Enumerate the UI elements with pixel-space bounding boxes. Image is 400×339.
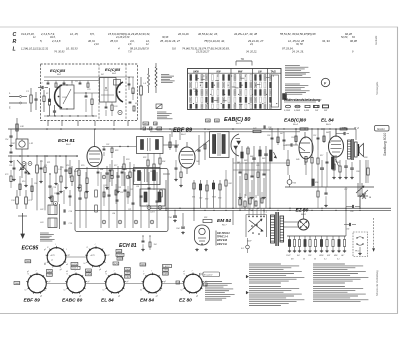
wire CM to bus [21, 149, 23, 156]
svg-text:ECC85: ECC85 [22, 246, 39, 252]
long vertical wires lower [165, 180, 167, 210]
svg-text:L24: L24 [112, 212, 115, 215]
svg-text:Ersatzteil: Ersatzteil [204, 273, 213, 276]
secondary bus wire [150, 131, 300, 133]
antenna trimmer C95 [22, 162, 26, 166]
svg-text:R14: R14 [74, 170, 77, 173]
car antenna lead [22, 213, 24, 234]
FM trimmer C20 [118, 110, 122, 114]
screen capacitor C27 [105, 172, 108, 174]
pickup TA jack [358, 195, 368, 197]
svg-text:M: M [144, 128, 146, 130]
svg-text:21,28,23,30: 21,28,23,30 [115, 36, 130, 39]
svg-text:Si 1: Si 1 [241, 248, 244, 250]
svg-text:R11: R11 [47, 162, 50, 164]
svg-text:R23: R23 [143, 157, 146, 159]
wire ECH81 plate to Fi1 [94, 129, 96, 142]
capacitor C14 [9, 135, 12, 137]
svg-text:g1: g1 [44, 249, 46, 251]
cathode resistor R16 [86, 178, 88, 184]
svg-text:L11: L11 [40, 161, 43, 163]
thermistor R50 [287, 180, 292, 185]
value boxes above EAB(C)80 [206, 119, 211, 122]
voltage box 240V [25, 260, 31, 263]
band switch table frame [188, 69, 282, 110]
tube EBF89 [179, 147, 195, 168]
resistor R19 [129, 172, 131, 178]
tube EM84 [195, 225, 210, 245]
svg-text:g3: g3 [156, 295, 158, 297]
speaker wires [357, 144, 358, 146]
wire to EM84 [193, 208, 195, 221]
left vertical wires to lower bus [36, 180, 38, 210]
bottom left note text [205, 281, 222, 283]
audio triode EABC80 [299, 137, 313, 159]
svg-text:Rö 2: Rö 2 [66, 144, 71, 146]
svg-text:3W: 3W [154, 123, 157, 125]
svg-text:EL 84: EL 84 [101, 298, 114, 304]
svg-text:k1: k1 [25, 290, 27, 292]
left zone verticals [13, 160, 15, 178]
svg-text:26,31,26: 26,31,26 [177, 32, 189, 36]
detector area grounds [239, 196, 241, 197]
FM tuner shield box [41, 64, 138, 121]
left area grounds [49, 196, 51, 197]
oscillator padder caps [108, 194, 111, 196]
svg-text:7,8: 7,8 [128, 50, 132, 53]
svg-text:W19: W19 [212, 197, 216, 199]
heater choke resistor [155, 67, 157, 87]
resistor W150 [312, 179, 314, 186]
spare part callout box [203, 272, 220, 277]
svg-text:96,98: 96,98 [350, 39, 357, 43]
IF trimmers [147, 206, 151, 210]
wire EBF89 plate [169, 134, 171, 150]
svg-text:245V: 245V [47, 275, 52, 277]
svg-text:a1: a1 [183, 271, 185, 273]
speaker field coil [367, 168, 369, 175]
grid capacitor C48 [290, 143, 292, 146]
heater wires [284, 221, 299, 223]
svg-text:74, 30,93: 74, 30,93 [54, 50, 65, 53]
svg-text:g1: g1 [27, 271, 29, 273]
AM tuning gang arrow [17, 160, 30, 174]
antenna coil L1 [30, 95, 32, 103]
svg-text:C40: C40 [196, 160, 199, 163]
svg-text:k1: k1 [103, 290, 105, 292]
svg-text:C22: C22 [146, 205, 149, 207]
svg-text:EM 84: EM 84 [140, 298, 154, 304]
svg-text:8,5,: 8,5, [90, 32, 95, 36]
svg-text:12, 25,: 12, 25, [70, 32, 79, 36]
svg-text:KW: KW [327, 255, 330, 257]
svg-text:100V: 100V [15, 283, 20, 285]
resistor R71 [25, 197, 28, 204]
note paragraph 2 [285, 83, 300, 85]
AVC line parts [232, 158, 234, 208]
resistor R43 [241, 152, 243, 158]
decoupling cap C94 [173, 215, 177, 217]
resistor R14 [71, 176, 73, 182]
capacitor C84 [181, 226, 185, 228]
svg-text:MW: MW [238, 70, 243, 73]
svg-text:52,80,: 52,80, [341, 36, 348, 39]
resistor R2 [48, 99, 50, 105]
svg-text:EAB(C)80: EAB(C)80 [284, 118, 306, 124]
legend resistor 0.12W [285, 105, 290, 108]
svg-text:k2: k2 [66, 271, 68, 273]
svg-text:C91: C91 [11, 200, 15, 202]
svg-text:k2: k2 [44, 264, 46, 266]
svg-text:240V: 240V [26, 261, 31, 263]
coupling capacitor C56 [343, 132, 345, 135]
capacitor C80 [352, 205, 354, 208]
screen resistors row [193, 180, 195, 208]
svg-text:50: 50 [303, 259, 305, 261]
svg-text:C52: C52 [313, 135, 316, 137]
capacitor C91 [16, 197, 19, 204]
tone pot [332, 157, 335, 169]
FM compartment divider 2 [125, 64, 127, 121]
mid zone verticals [97, 166, 99, 186]
svg-text:Schema der Verdrahtung: Schema der Verdrahtung [376, 270, 379, 296]
svg-text:g1: g1 [49, 281, 51, 283]
tube EL84 [329, 136, 344, 157]
socket row link wires [46, 283, 66, 285]
svg-text:C29: C29 [100, 169, 103, 171]
svg-text:250V: 250V [125, 269, 130, 271]
svg-text:Rö 3: Rö 3 [236, 123, 241, 125]
band switch contact stripes [190, 75, 192, 81]
svg-text:(210V): (210V) [117, 255, 124, 257]
capacitor C18 [63, 209, 65, 212]
triode V1a [55, 85, 62, 108]
dashed link arrow [373, 218, 375, 251]
legend resistor 0.5W [305, 105, 310, 107]
socket link wires [66, 256, 86, 258]
ECH81 plate coupling parts [103, 148, 106, 150]
oscillator coil pack box [75, 169, 168, 232]
ratio detector wires [204, 132, 206, 161]
svg-text:C229: C229 [103, 185, 107, 187]
page right edge [397, 27, 399, 314]
svg-text:R60: R60 [229, 183, 232, 185]
antenna coil L32 [48, 205, 57, 215]
svg-text:55,51,52, 80,62,56,97(95),98: 55,51,52, 80,62,56,97(95),98 [280, 32, 316, 36]
svg-text:k1: k1 [140, 290, 142, 292]
svg-text:g3: g3 [99, 269, 101, 271]
voltage selector plate [245, 215, 247, 238]
svg-text:g1: g1 [88, 281, 90, 283]
table right contact block [283, 94, 287, 100]
wire down right [345, 187, 347, 236]
ECH81 pentode-heptode tube [87, 147, 102, 167]
svg-text:100V: 100V [163, 273, 168, 275]
svg-text:f1: f1 [106, 273, 107, 275]
legend resistor 1W [314, 105, 320, 107]
electrolytic capacitor bank [287, 235, 346, 237]
svg-text:190-7/8 E14: 190-7/8 E14 [217, 232, 230, 235]
svg-text:g3: g3 [118, 295, 120, 297]
svg-text:EZ 80: EZ 80 [179, 298, 192, 304]
volume potentiometer [270, 150, 273, 161]
EM84 grounds [196, 248, 198, 249]
svg-text:24, 24, 26,: 24, 24, 26, [291, 50, 304, 53]
svg-text:R40: R40 [207, 128, 210, 131]
IF transformer Fi3 [140, 189, 165, 206]
svg-text:R61: R61 [204, 217, 207, 219]
power transformer Tr1 [271, 215, 275, 243]
anode resistor R55 [305, 157, 307, 163]
svg-text:Tr 2: Tr 2 [354, 126, 359, 130]
selector feed resistors [239, 199, 241, 205]
L6 L7 junction labels [143, 122, 149, 125]
svg-text:R43: R43 [244, 159, 247, 162]
svg-text:Teil-Ausgabe: Teil-Ausgabe [376, 81, 379, 95]
svg-text:C23: C23 [120, 192, 123, 194]
svg-text:f1: f1 [143, 273, 144, 275]
svg-text:g2: g2 [105, 271, 107, 273]
EM84 drive resistor [225, 180, 227, 186]
svg-text:CM: CM [11, 143, 15, 145]
interstage cap C17 [85, 95, 88, 97]
svg-text:45, 29,41 26, 27: 45, 29,41 26, 27 [160, 39, 180, 43]
svg-text:250V: 250V [86, 270, 91, 272]
resistor R45 [259, 150, 261, 156]
wave trap L10 [55, 166, 57, 173]
ferrite antenna coupler CM [16, 139, 28, 149]
svg-text:f1: f1 [28, 273, 29, 275]
wire Fi1 to EBF89 [163, 144, 179, 146]
FM top rails [44, 76, 134, 78]
svg-text:a2: a2 [66, 264, 68, 266]
svg-text:k1: k1 [84, 263, 86, 265]
capacitor C45 [252, 157, 256, 159]
svg-text:C95: C95 [9, 165, 12, 167]
svg-text:24,: 24, [249, 43, 254, 46]
bus junction dots [16, 128, 18, 130]
svg-text:75(?)1,16,20, 42,: 75(?)1,16,20, 42, [204, 39, 225, 43]
svg-text:C81: C81 [346, 229, 349, 231]
padder C16 [48, 185, 51, 187]
svg-text:ECH 81: ECH 81 [119, 243, 137, 249]
wire to output [359, 160, 361, 208]
capacitor C90 [263, 125, 265, 128]
misc junction dots lower bus [165, 210, 166, 211]
socket diagram ECC85 [47, 248, 66, 267]
svg-text:2,16: 2,16 [93, 43, 99, 46]
note arrows [246, 275, 248, 278]
svg-text:EBF 89: EBF 89 [24, 298, 41, 304]
interstage wire [74, 92, 100, 94]
ECH81 area ground symbols [65, 186, 67, 187]
oscillator trimmers [102, 175, 106, 179]
coupling symbol [156, 104, 162, 109]
svg-text:a1: a1 [44, 290, 46, 292]
capacitor C4 [53, 110, 56, 112]
tone switch contacts [357, 183, 359, 197]
rectifier tube EZ80 [298, 219, 309, 230]
svg-text:Rö 7: Rö 7 [222, 224, 227, 226]
svg-text:R45: R45 [262, 157, 265, 160]
svg-text:f1: f1 [47, 247, 48, 249]
svg-text:44,45+1,47, 49, 48: 44,45+1,47, 49, 48 [234, 32, 257, 36]
svg-text:R26: R26 [124, 169, 127, 171]
resistor R18 [123, 164, 125, 170]
svg-text:2,2V: 2,2V [114, 263, 119, 265]
svg-text:Rö 2: Rö 2 [181, 134, 186, 136]
detector network verticals [235, 146, 237, 208]
IF transformer Fi2 [134, 168, 161, 185]
AVC bus wire [285, 186, 374, 188]
caps near oscillator box bottom [142, 240, 145, 242]
svg-text:C42: C42 [199, 197, 202, 200]
band switch column dividers [208, 69, 210, 110]
cathode network EL84 [333, 164, 335, 170]
svg-text:ECH 81: ECH 81 [58, 138, 75, 144]
svg-text:g3: g3 [196, 295, 198, 297]
mid zone components [97, 171, 100, 173]
svg-text:245V: 245V [141, 264, 146, 266]
detector load R42 [253, 130, 261, 132]
svg-text:Ph 1: Ph 1 [355, 251, 360, 253]
B+ feed resistors [300, 128, 308, 130]
svg-text:C14: C14 [5, 138, 8, 141]
interstage res R5 [91, 99, 93, 105]
svg-text:g3: g3 [40, 295, 42, 297]
V2 cathode stack [111, 105, 113, 111]
svg-text:UKW: UKW [319, 255, 324, 257]
svg-text:R25: R25 [106, 189, 109, 191]
svg-text:R16: R16 [66, 165, 69, 167]
svg-text:C32: C32 [106, 144, 109, 146]
capacitor C28 [116, 175, 119, 177]
svg-text:36,98: 36,98 [162, 36, 169, 39]
svg-text:7,3V: 7,3V [125, 276, 130, 278]
oscillator box verticals [100, 172, 102, 228]
output transformer Tr2 [348, 140, 351, 159]
svg-text:150V: 150V [118, 258, 123, 260]
junction dots left area [36, 155, 37, 156]
capacitor C46 [264, 153, 268, 155]
svg-text:f1: f1 [184, 273, 185, 275]
socket row voltage boxes [14, 282, 20, 285]
ratio coil L7 [148, 74, 150, 86]
svg-text:L12: L12 [44, 165, 47, 167]
svg-text:R13: R13 [22, 181, 25, 183]
svg-text:C25: C25 [54, 193, 57, 195]
svg-text:Rö 4: Rö 4 [293, 123, 298, 126]
svg-text:+67V: +67V [50, 255, 55, 257]
loudspeaker [358, 144, 360, 156]
svg-text:R53: R53 [218, 198, 221, 200]
choke L30 [16, 124, 18, 131]
EBF89 cathode parts [175, 167, 178, 169]
svg-text:Widerstandsbelastung:: Widerstandsbelastung: [284, 98, 321, 102]
core line [59, 204, 61, 229]
resistor R12 [60, 176, 62, 182]
svg-text:250V: 250V [47, 271, 52, 273]
svg-text:MW: MW [334, 255, 338, 257]
TA S column box [272, 75, 279, 107]
note text block top [161, 74, 169, 76]
svg-text:34V: 34V [206, 120, 210, 122]
svg-text:C30: C30 [118, 187, 121, 189]
svg-text:TA/S: TA/S [271, 70, 277, 73]
FM rail components [47, 81, 49, 84]
antenna coupling trimmer [54, 202, 58, 206]
capacitor C33 [174, 145, 177, 147]
svg-text:R1: R1 [46, 93, 48, 95]
wire from CM down [16, 122, 18, 139]
svg-text:g3: g3 [60, 269, 62, 271]
bottom right note text [313, 263, 345, 265]
svg-text:5,6: 5,6 [172, 46, 176, 50]
svg-text:EM 84: EM 84 [217, 218, 231, 224]
svg-text:9/13,: 9/13, [50, 36, 56, 39]
svg-text:5,: 5, [40, 39, 43, 43]
voltage boxes right of ECH81 [116, 250, 122, 253]
note text block middle [157, 111, 166, 113]
audio area verticals [271, 129, 273, 150]
svg-text:200V: 200V [117, 251, 122, 253]
FM box bottom contact dots [47, 115, 48, 116]
resistor R15 [78, 170, 80, 176]
antenna note text [40, 232, 49, 234]
svg-text:R51: R51 [192, 197, 195, 199]
socket diagram ECH81 [87, 248, 106, 267]
AM input bus wire [8, 155, 78, 157]
FM input dipole [9, 96, 19, 98]
svg-text:0,65V: 0,65V [72, 264, 78, 266]
svg-text:Gedruckt: Gedruckt [375, 35, 378, 45]
svg-text:0,1: 0,1 [324, 259, 327, 261]
svg-text:245V: 245V [163, 270, 168, 272]
svg-text:L26: L26 [136, 186, 139, 188]
B+ dropper under bus [317, 191, 319, 197]
ratio detector transformer Fi4 [210, 132, 230, 158]
EL84 area grounds [333, 176, 335, 177]
grid resistor R46 [287, 160, 289, 166]
svg-text:a: a [122, 290, 123, 292]
svg-text:245V: 245V [125, 273, 130, 275]
svg-text:L: L [13, 47, 16, 53]
band switch contact dots [189, 75, 190, 76]
svg-text:R44: R44 [250, 155, 253, 158]
svg-text:58,19,15,(9)7,8: 58,19,15,(9)7,8 [130, 46, 149, 50]
svg-text:34, 94: 34, 94 [322, 39, 330, 43]
bottom middle note text [249, 263, 281, 265]
svg-text:C21: C21 [128, 209, 131, 211]
AGC resistors row [147, 160, 149, 166]
svg-text:EL 84: EL 84 [321, 118, 334, 124]
coil L11 [36, 165, 39, 173]
svg-text:TPP/C 2-4: TPP/C 2-4 [217, 236, 228, 239]
svg-text:g1: g1 [127, 281, 129, 283]
svg-text:R70: R70 [5, 174, 8, 176]
socket row circles [28, 274, 47, 293]
ECH81 grid capacitor [64, 169, 67, 171]
wave band link TD [236, 60, 252, 62]
svg-text:R48: R48 [326, 131, 329, 134]
bus junction dots audio [271, 128, 272, 129]
IF output coil L6 [140, 86, 143, 95]
page bottom edge [0, 313, 398, 315]
tone correction caps [350, 167, 354, 169]
svg-text:Görler: Görler [377, 127, 386, 131]
svg-text:g1: g1 [164, 281, 166, 283]
svg-text:50: 50 [314, 259, 316, 261]
